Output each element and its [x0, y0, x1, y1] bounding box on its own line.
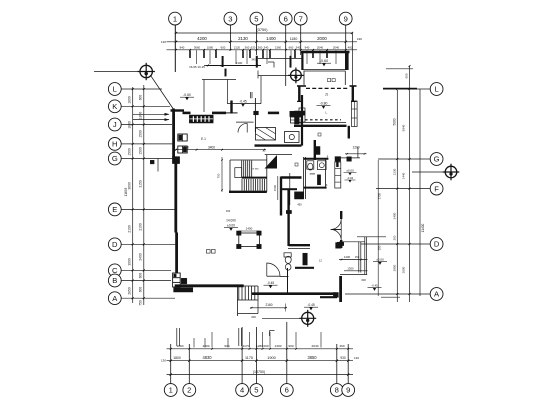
svg-text:5: 5: [254, 386, 258, 395]
door arc hallway: [238, 123, 247, 132]
toilet fixture: [307, 161, 314, 169]
wall NE window east: [352, 101, 358, 127]
svg-text:3400: 3400: [208, 145, 215, 149]
svg-text:900: 900: [224, 344, 229, 348]
grid bubble 1 bottom: [164, 384, 177, 397]
grid line 1 bottom leader: [170, 344, 172, 384]
svg-text:(3750): (3750): [257, 28, 269, 32]
grid bubble G right: [430, 153, 443, 166]
svg-text:1200: 1200: [352, 146, 359, 150]
svg-text:±0.00: ±0.00: [376, 258, 384, 262]
svg-text:3850: 3850: [307, 355, 317, 360]
column block south entry east: [333, 293, 338, 298]
svg-text:F: F: [434, 184, 439, 193]
svg-text:J: J: [113, 120, 117, 129]
grid line G row leader left: [121, 158, 174, 160]
svg-text:-0.60: -0.60: [320, 59, 328, 63]
column block SW corner: [181, 278, 187, 284]
small corner mark: [269, 331, 271, 337]
benchmark diagonal leader: [151, 76, 174, 110]
block right of door arcs: [337, 242, 344, 245]
svg-text:2000: 2000: [317, 36, 327, 41]
right dimension outermost line: [419, 89, 421, 296]
svg-text:300: 300: [392, 235, 396, 240]
svg-text:4: 4: [240, 386, 244, 395]
svg-text:K: K: [112, 102, 117, 111]
bottom dimension line 2: [167, 360, 354, 362]
level mark +0.00 right of terrace: [373, 258, 387, 265]
svg-text:14.000: 14.000: [226, 219, 236, 223]
dining table: [239, 233, 260, 247]
grid bubble 9 bottom: [342, 384, 355, 397]
svg-text:2040: 2040: [312, 344, 319, 348]
svg-text:1400: 1400: [246, 227, 253, 231]
wall NE room top: [301, 51, 350, 53]
grid bubble E left: [108, 203, 121, 216]
grid bubble A right: [430, 288, 443, 301]
right G-F crosshair leader: [412, 171, 445, 173]
NE crosshair line: [258, 74, 291, 76]
north-center wall bar 1: [222, 56, 224, 67]
svg-text:B: B: [112, 276, 117, 285]
grid bubble G left: [108, 152, 121, 165]
terrace verticals east: [358, 242, 360, 273]
bottom dimension line 3 overall: [167, 374, 354, 376]
black square right of block: [301, 111, 305, 115]
short vertical below G line: [157, 159, 159, 172]
terrace dim line east 2: [344, 270, 368, 272]
svg-text:130: 130: [161, 359, 166, 363]
svg-text:±0.00: ±0.00: [227, 224, 235, 228]
svg-text:600: 600: [263, 344, 268, 348]
kitchen sink fixture: [285, 132, 300, 143]
svg-text:3000: 3000: [402, 266, 406, 273]
grid line E row leader: [121, 208, 177, 210]
stair mid divider thick: [242, 177, 267, 179]
bathroom south wall: [303, 187, 326, 189]
svg-text:-0.45: -0.45: [371, 284, 378, 288]
wall west wing north thin continuation: [226, 112, 238, 114]
svg-text:1860: 1860: [177, 344, 184, 348]
svg-text:3: 3: [228, 14, 232, 23]
stair east boundary: [266, 155, 268, 192]
svg-text:-0.45: -0.45: [267, 281, 274, 285]
bath2 top wall: [289, 244, 310, 246]
svg-text:660: 660: [289, 46, 294, 50]
svg-text:1080: 1080: [207, 46, 214, 50]
top dimension line 2: [167, 41, 358, 43]
north-center vertical right: [260, 76, 262, 104]
dim 1200 east: [345, 153, 367, 155]
dark block on stub wall: [314, 147, 320, 155]
small L mark: [268, 61, 274, 63]
wall center-east west side: [301, 95, 303, 146]
wall kitchen east stub: [314, 140, 316, 160]
svg-text:8: 8: [335, 386, 339, 395]
svg-text:2400: 2400: [139, 253, 143, 261]
grid bubble 6 bottom: [280, 384, 293, 397]
grid line C row leader: [121, 269, 171, 271]
entry benchmark line: [262, 317, 302, 319]
level mark -0.80 NE lower: [317, 102, 331, 109]
svg-text:1800: 1800: [173, 356, 181, 360]
svg-text:1500: 1500: [273, 184, 277, 191]
svg-text:1: 1: [169, 386, 173, 395]
svg-text:2160: 2160: [265, 303, 272, 307]
pier block below SW corner: [174, 288, 193, 292]
grid line 5 bottom leader: [255, 327, 257, 384]
grid bubble 5 top: [250, 12, 263, 25]
bath2 top wall lower line: [288, 247, 310, 249]
svg-text:1400: 1400: [344, 255, 351, 259]
svg-text:1500: 1500: [128, 148, 132, 156]
svg-text:2100: 2100: [236, 61, 243, 65]
benchmark leader line left: [94, 71, 140, 73]
left dimension line inner: [132, 87, 134, 303]
level mark near A row right: [368, 284, 382, 291]
room label NE small: [328, 79, 331, 82]
svg-text:360: 360: [245, 46, 250, 50]
svg-text:6: 6: [284, 14, 288, 23]
NE interior line: [258, 58, 302, 60]
svg-text:130: 130: [354, 356, 359, 360]
grid line F row leader right: [376, 188, 430, 190]
wall right upper stub: [348, 126, 350, 139]
svg-text:900: 900: [288, 344, 293, 348]
svg-text:1300: 1300: [347, 266, 354, 270]
svg-text:300: 300: [361, 278, 366, 282]
svg-text:6: 6: [285, 386, 289, 395]
svg-text:H: H: [112, 140, 117, 149]
stair landing box: [235, 168, 242, 178]
svg-text:1400: 1400: [266, 36, 276, 41]
black block top of east window: [335, 157, 341, 162]
svg-text:600: 600: [405, 73, 409, 78]
grid bubble 6 top: [279, 12, 292, 25]
wall callout arrow upper: [133, 113, 169, 115]
short vertical pair hall: [250, 92, 252, 98]
svg-text:L: L: [434, 85, 438, 94]
svg-text:460: 460: [348, 46, 353, 50]
pergola dashed line: [305, 119, 341, 121]
grid line L row right: [383, 88, 430, 90]
svg-text:7: 7: [299, 14, 303, 23]
svg-text:3600: 3600: [128, 182, 132, 190]
grid bubble L left: [108, 83, 121, 96]
wall kitchen south: [255, 144, 302, 146]
grid bubble K left: [108, 100, 121, 113]
svg-text:4830: 4830: [202, 355, 212, 360]
room label living: [207, 250, 211, 254]
grid line 9 bottom leader: [347, 344, 349, 384]
line right of stair: [265, 154, 292, 156]
wall corner block G row: [172, 157, 179, 164]
svg-text:2: 2: [187, 386, 191, 395]
svg-text:360: 360: [258, 46, 263, 50]
wall bracket left of opening: [298, 87, 300, 102]
svg-text:E: E: [112, 205, 117, 214]
top dimension line 3 detail: [167, 49, 358, 51]
north-center wall bar 3: [256, 56, 258, 68]
top dimension extension thin lines: [196, 50, 198, 64]
svg-text:600: 600: [139, 287, 143, 293]
wall at door arc horizontal: [280, 275, 289, 277]
svg-text:11400: 11400: [421, 223, 425, 232]
dim 1400 table: [239, 230, 260, 232]
window below block east: [291, 117, 303, 123]
grid line A row second line: [381, 296, 400, 298]
NE side walls below: [303, 71, 305, 85]
svg-text:1800: 1800: [139, 112, 143, 120]
grid line K row leader: [121, 105, 170, 107]
grid line 1 top leader: [174, 25, 176, 72]
entry steps block rails: [238, 286, 240, 300]
svg-text:2850: 2850: [128, 287, 132, 295]
black block top SE wall: [336, 243, 342, 249]
svg-text:-0.80: -0.80: [320, 102, 328, 106]
grid line 4 bottom leader: [241, 327, 243, 384]
level mark -0.60 NE room: [317, 59, 331, 66]
wall west upper: [172, 109, 175, 158]
right top leader line: [386, 68, 413, 70]
wall right rooms west side: [340, 211, 342, 219]
stair lower flight treads: [241, 179, 243, 191]
svg-text:2130: 2130: [238, 36, 248, 41]
extension lines above bottom dims center: [238, 328, 240, 346]
cabinet boxes inside west wall upper: [178, 134, 187, 141]
svg-text:G: G: [434, 155, 440, 164]
grid bubble J left: [108, 118, 121, 131]
svg-text:3150: 3150: [139, 180, 143, 188]
wall west lower: [174, 164, 177, 233]
terrace vertical line: [203, 80, 205, 113]
svg-text:460: 460: [339, 344, 344, 348]
stair south wall: [229, 191, 267, 193]
grid bubble F right: [430, 182, 443, 195]
crosshair benchmark right: [443, 164, 460, 181]
svg-text:1800: 1800: [128, 96, 132, 104]
svg-text:4200: 4200: [197, 36, 207, 41]
wall west wing north segment 2: [212, 112, 226, 115]
crosshair benchmark NE: [288, 68, 304, 84]
svg-text:620: 620: [251, 46, 256, 50]
wall callout arrow lower: [133, 119, 169, 121]
window north wall: [190, 115, 214, 123]
svg-text:750: 750: [139, 300, 143, 306]
stair upper flight treads: [241, 161, 243, 178]
crosshair benchmark entry: [299, 310, 316, 327]
interior stair dim line: [221, 157, 223, 192]
svg-text:E.1: E.1: [201, 137, 206, 141]
building corner extension line right: [352, 33, 354, 86]
door arc right upper: [331, 219, 342, 230]
kitchen west wall upper: [254, 98, 256, 132]
thin line right top: [357, 236, 386, 238]
stair boundary west: [229, 160, 231, 192]
svg-text:(13750): (13750): [253, 370, 265, 374]
svg-text:D: D: [112, 240, 118, 249]
svg-text:5940: 5940: [402, 124, 406, 131]
grid bubble D left: [108, 238, 121, 251]
sink fixture: [318, 161, 327, 170]
level mark -0.60 terrace: [180, 93, 194, 100]
wall bracket right of opening: [352, 87, 354, 102]
level mark -0.45 terrace: [236, 100, 250, 107]
wall vertical center-south: [280, 177, 282, 216]
right dimension line outer: [409, 66, 411, 302]
door arc center room: [267, 263, 280, 276]
terrace dim line east: [339, 259, 368, 261]
svg-text:D: D: [434, 240, 440, 249]
svg-text:5000: 5000: [392, 118, 396, 125]
window west wall living: [173, 273, 181, 287]
wall west living: [175, 233, 178, 274]
grid line A row leader left: [121, 297, 175, 299]
small room label right: [295, 163, 298, 166]
grid line 9 top leader: [345, 25, 347, 52]
north wall segment 2: [268, 112, 279, 115]
NE room bottom double line: [304, 69, 346, 71]
svg-text:2100: 2100: [139, 223, 143, 231]
wall center horizontal: [294, 125, 347, 127]
svg-text:L: L: [113, 85, 117, 94]
right dimension line inner: [396, 90, 398, 302]
svg-text:G: G: [112, 154, 118, 163]
room label center small: [318, 133, 321, 136]
wall center-room east vertical: [287, 189, 289, 246]
svg-text:2100: 2100: [128, 225, 132, 233]
svg-text:2400: 2400: [392, 212, 396, 219]
wall living south: [175, 284, 244, 287]
bath2 dark bar: [303, 253, 308, 265]
svg-text:L.: L.: [325, 111, 328, 115]
svg-text:1500: 1500: [182, 145, 189, 149]
wall south entry: [252, 292, 336, 295]
terrace horizontal top: [339, 241, 365, 243]
svg-text:3900: 3900: [128, 258, 132, 266]
wall vertical stub north: [230, 101, 232, 114]
svg-text:1300: 1300: [275, 344, 282, 348]
north-center wall bar 2: [225, 69, 227, 77]
stair side dim line: [277, 176, 279, 200]
grid bubble 1 top: [169, 12, 182, 25]
bathroom short line: [310, 173, 315, 175]
grid bubble 8 bottom: [330, 384, 343, 397]
svg-text:4800: 4800: [203, 344, 210, 348]
door arc right lower: [331, 230, 342, 241]
right dimension construction line: [377, 160, 379, 296]
double line right of wall: [289, 173, 291, 205]
svg-text:5: 5: [254, 14, 258, 23]
grid bubble 3 top: [224, 12, 237, 25]
window east bath wall: [335, 162, 341, 188]
svg-text:300: 300: [251, 315, 256, 319]
svg-text:16.95 16.25: 16.95 16.25: [189, 65, 205, 69]
svg-text:1360: 1360: [275, 46, 282, 50]
entry dim 2160: [250, 307, 287, 309]
grid line L row thick segment: [383, 88, 417, 90]
svg-text:600: 600: [221, 46, 226, 50]
grid line 5 top leader: [255, 25, 257, 55]
svg-text:2120: 2120: [234, 46, 241, 50]
wall below bathroom horizontal: [281, 188, 297, 190]
vertical right of bath: [357, 147, 359, 158]
stair section arrow: [265, 155, 278, 169]
svg-text:1500: 1500: [139, 147, 143, 155]
svg-text:-0.60: -0.60: [183, 93, 191, 97]
grid line L row left: [121, 88, 162, 90]
north-center vertical partition: [227, 79, 229, 104]
black column block right: [347, 157, 352, 161]
grid line D row leader left: [121, 243, 178, 245]
svg-text:750: 750: [217, 173, 221, 178]
grid bubble A left: [108, 292, 121, 305]
wall NE room right thick: [345, 52, 349, 70]
grid line 2 bottom leader: [188, 344, 190, 384]
grid line H row leader: [121, 143, 174, 145]
top dimension extension bars: [189, 50, 191, 58]
left dimension line outer: [143, 85, 145, 305]
svg-text:600: 600: [139, 273, 143, 279]
wall west wing north segment 1: [183, 112, 191, 115]
bath2 bottom wall: [295, 267, 314, 269]
block on wall center-south: [286, 210, 291, 213]
svg-text:J1: J1: [325, 93, 329, 97]
wall NE room left: [301, 52, 303, 70]
block on kitchen wall: [254, 111, 259, 115]
bath2 toilet fixture: [284, 253, 291, 257]
grid line J row leader: [121, 124, 172, 126]
north-center horizontal partition: [228, 103, 262, 105]
extension lines above bottom dims west: [176, 328, 178, 346]
svg-text:1280: 1280: [256, 344, 263, 348]
svg-text:xx xxx: xx xxx: [251, 168, 259, 171]
grid bubble 2 bottom: [183, 384, 196, 397]
wall interior right vertical: [325, 159, 327, 188]
bathroom west double wall: [303, 157, 305, 199]
grid bubble C left: [108, 264, 121, 277]
svg-text:1170: 1170: [243, 344, 250, 348]
svg-text:1175: 1175: [245, 356, 253, 360]
grid line 6 top leader: [285, 25, 287, 86]
grid bubble 4 bottom: [236, 384, 249, 397]
wall SE vertical: [339, 276, 342, 302]
grid line D row leader right: [361, 243, 430, 245]
svg-text:2850: 2850: [392, 264, 396, 271]
svg-text:930: 930: [340, 356, 346, 360]
grid bubble H left: [108, 138, 121, 151]
stair top boundary: [230, 159, 267, 161]
bathroom north wall: [303, 158, 328, 160]
bath2 bidet fixture: [285, 264, 291, 270]
svg-text:2040: 2040: [333, 46, 340, 50]
entry steps horizontals: [238, 285, 259, 287]
svg-text:340: 340: [251, 57, 256, 61]
sliding opening dashes: [306, 87, 349, 89]
grid bubble B left: [108, 274, 121, 287]
north-center vertical short: [257, 71, 259, 79]
wall below door arc vertical: [287, 268, 289, 294]
line right of bath wall: [339, 157, 360, 159]
grid line 7 top leader: [300, 25, 302, 55]
grid bubble 5 bottom: [250, 384, 263, 397]
wall west wing north cap: [171, 109, 185, 111]
level mark -0.45 porch: [304, 303, 318, 310]
kitchen counter hatched: [256, 128, 276, 141]
svg-text:-0.45: -0.45: [239, 100, 246, 104]
dark block below bathroom: [295, 192, 304, 199]
terrace horizontal line: [202, 79, 236, 81]
